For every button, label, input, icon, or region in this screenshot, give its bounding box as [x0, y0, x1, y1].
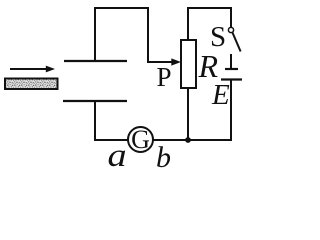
wire bottom-right	[153, 139, 232, 141]
svg-text:S: S	[210, 21, 226, 53]
velocity arrow	[10, 66, 55, 73]
capacitor top plate	[64, 60, 127, 62]
wire rheostat bottom lead	[187, 88, 189, 140]
wire top-right	[187, 8, 231, 27]
svg-text:P: P	[157, 62, 172, 92]
galvanometer G	[128, 127, 153, 152]
rheostat R	[181, 40, 196, 88]
wire rheostat top lead	[187, 8, 189, 40]
capacitor bottom plate	[63, 100, 127, 102]
wiper arrow P	[147, 58, 181, 65]
battery E	[221, 69, 242, 80]
junction node	[185, 137, 191, 143]
svg-text:G: G	[131, 125, 150, 154]
conductor bar	[5, 79, 58, 90]
wire right side	[230, 81, 231, 141]
svg-text:b: b	[156, 141, 171, 172]
svg-text:a: a	[108, 136, 127, 172]
switch S	[228, 27, 240, 68]
wire bottom-left	[95, 101, 128, 140]
wire top-left loop	[95, 8, 148, 62]
svg-text:E: E	[211, 79, 230, 111]
